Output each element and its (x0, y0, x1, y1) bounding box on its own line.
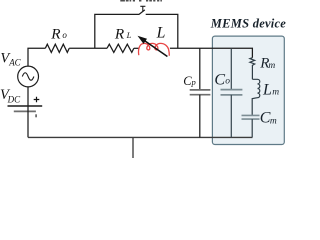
label V_DC (0, 87, 21, 105)
switch bypass loop right leg (146, 14, 178, 48)
MEMS device shaded box (212, 36, 284, 144)
label C_p (183, 74, 195, 88)
svg-text:AC: AC (8, 58, 21, 68)
label L_m (262, 81, 279, 98)
battery V_DC (8, 97, 43, 118)
svg-text:m: m (268, 61, 275, 71)
svg-text:L: L (262, 81, 272, 98)
wire: battery through plates (27, 106, 29, 137)
clipped caption text at top (cut off) (120, 0, 162, 2)
svg-text:MEMS device: MEMS device (210, 16, 287, 30)
switch S (open lever with T actuator) (139, 6, 145, 14)
capacitor C_p (190, 48, 211, 137)
label MEMS device (210, 16, 287, 30)
label L (156, 25, 166, 42)
resistor R_o (45, 44, 69, 52)
inductor L (red, variable) (139, 43, 170, 55)
label R_o (50, 26, 67, 43)
inductor L_m (vertical coil, inside MEMS box) (252, 79, 260, 115)
wire: R_L to inductor (134, 47, 139, 49)
bottom rail (28, 136, 252, 138)
resistor R_m (vertical, inside MEMS box) (250, 58, 255, 80)
capacitor C_m (inside MEMS box) (242, 115, 260, 137)
svg-text:m: m (272, 88, 279, 98)
svg-text:o: o (62, 30, 67, 40)
label C_m (260, 110, 277, 127)
wire: top rail from source to R_o (28, 48, 45, 66)
svg-text:R: R (114, 25, 125, 42)
svg-text:R: R (50, 26, 61, 43)
resistor R_L (107, 44, 134, 52)
label C_o (214, 71, 230, 88)
wire: R_o to switch-left node to R_L (69, 47, 107, 49)
label V_AC (0, 50, 21, 67)
AC source V_AC (18, 66, 39, 87)
wire: inductor to MEMS top rail (170, 48, 253, 57)
ground stub (132, 137, 134, 158)
svg-text:L: L (126, 30, 132, 40)
capacitor C_o (inside MEMS box) (221, 48, 243, 137)
svg-text:L: L (156, 25, 166, 42)
label R_L (114, 25, 132, 42)
svg-text:DC: DC (7, 95, 21, 105)
svg-text:p: p (191, 77, 196, 87)
label R_m (259, 55, 275, 71)
svg-text:m: m (270, 117, 277, 127)
arrow across inductor (138, 36, 168, 57)
svg-text:o: o (225, 76, 230, 86)
svg-text:C: C (214, 71, 225, 88)
wire: V_AC to battery (27, 87, 29, 106)
switch bypass loop left leg (95, 14, 140, 48)
